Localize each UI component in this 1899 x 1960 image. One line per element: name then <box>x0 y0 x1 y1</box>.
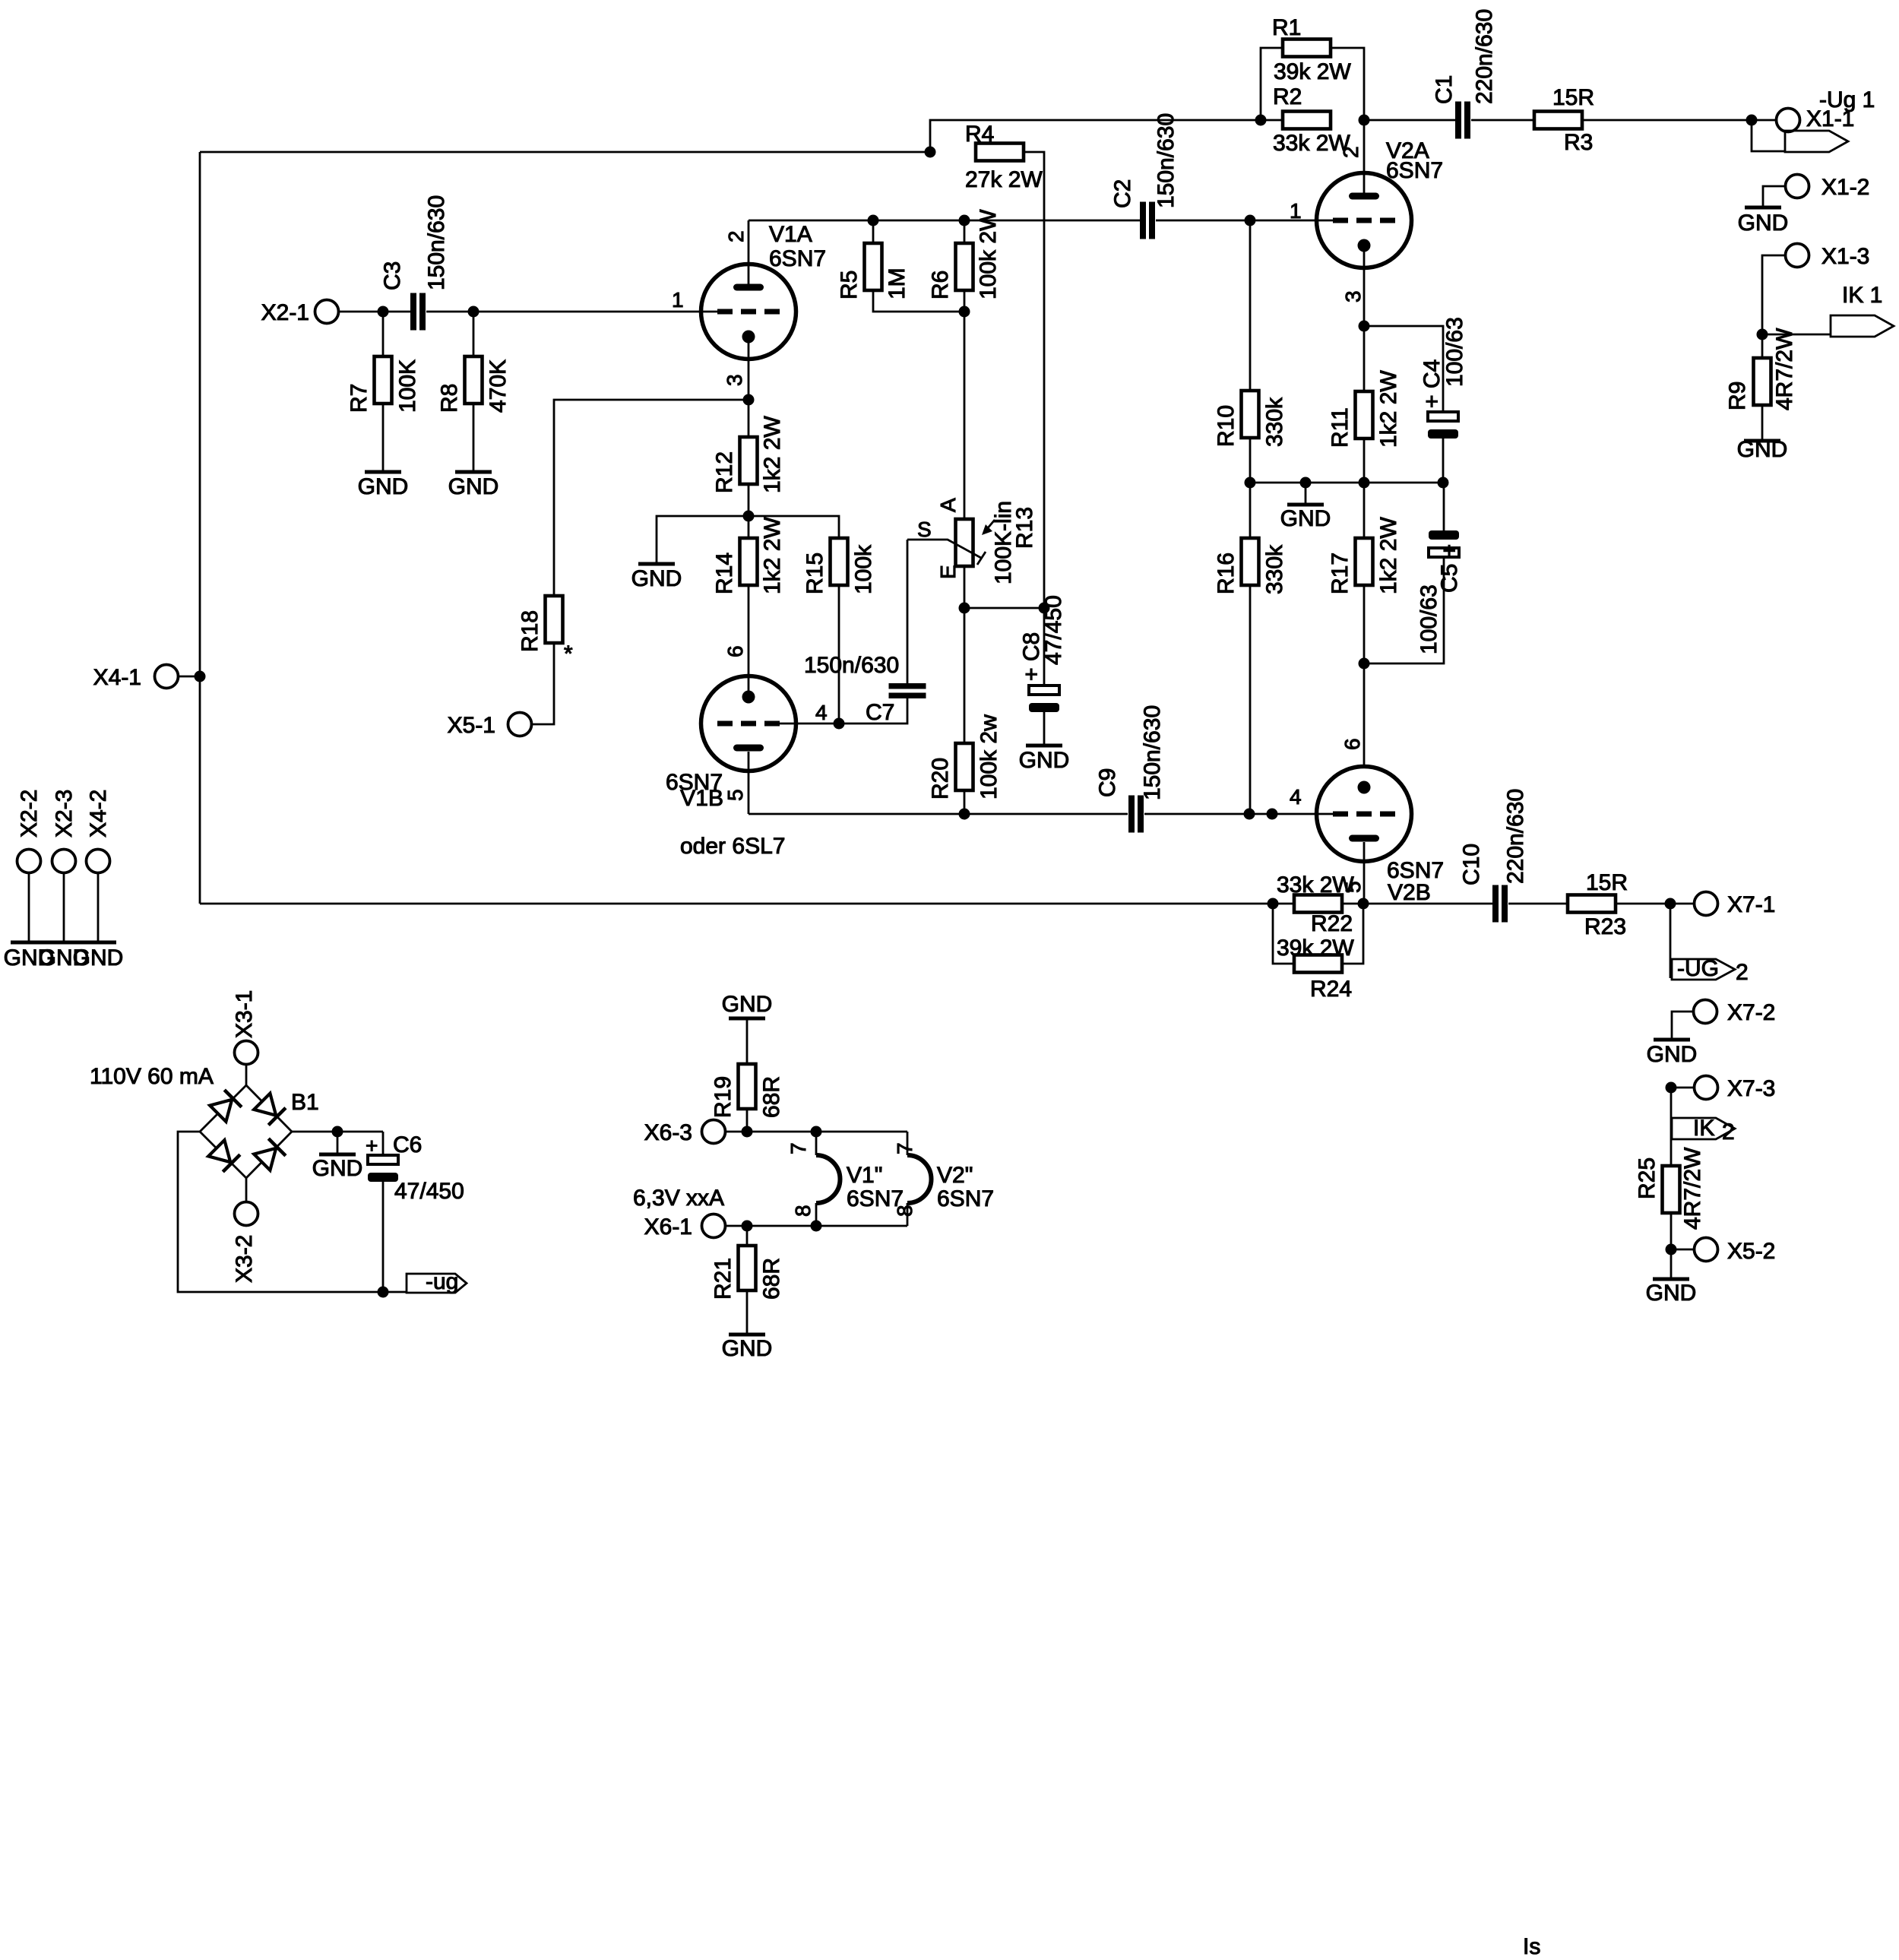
junction bus gnd <box>1300 477 1312 489</box>
svg-text:GND: GND <box>631 566 682 591</box>
wire R18 to X5-1 <box>532 643 554 724</box>
svg-text:GND: GND <box>448 474 499 499</box>
svg-text:V1A: V1A <box>769 222 812 247</box>
wire C2 to V2A grid <box>1156 220 1333 222</box>
svg-text:100k: 100k <box>851 544 876 594</box>
terminal X5-2 <box>1695 1238 1718 1262</box>
junction V1 pin8 <box>811 1221 822 1232</box>
wire V2B pin6 <box>1363 663 1366 766</box>
svg-text:220n/630: 220n/630 <box>1503 789 1528 884</box>
svg-text:GND: GND <box>1738 211 1789 236</box>
wire C4 bottom <box>1442 439 1445 483</box>
connector IK 1 <box>1831 315 1894 337</box>
svg-text:1: 1 <box>1290 199 1302 223</box>
svg-text:6SN7: 6SN7 <box>1386 158 1443 183</box>
junction R6 top <box>959 215 970 226</box>
bridge B1 diamond <box>200 1085 292 1178</box>
svg-text:R7: R7 <box>347 384 372 413</box>
junction V2A anode node <box>1359 115 1370 126</box>
svg-text:15R: 15R <box>1586 870 1628 895</box>
heater arc V1 <box>816 1155 840 1203</box>
tube V1B <box>701 676 796 771</box>
svg-text:R12: R12 <box>712 451 737 493</box>
junction R9 node <box>1757 329 1768 340</box>
wire R14 bottom <box>748 585 750 697</box>
svg-text:15R: 15R <box>1552 85 1594 110</box>
svg-text:150n/630: 150n/630 <box>424 195 449 290</box>
resistor R8 <box>465 356 483 404</box>
svg-text:R15: R15 <box>802 553 828 594</box>
junction V2A pin3 <box>1359 321 1370 332</box>
svg-text:150n/630: 150n/630 <box>1154 113 1179 208</box>
svg-text:GND: GND <box>722 992 773 1017</box>
wire V2B pin5 <box>1363 842 1366 904</box>
svg-text:C5 +: C5 + <box>1437 544 1462 593</box>
svg-text:-Ug 1: -Ug 1 <box>1819 87 1875 112</box>
svg-text:*: * <box>564 641 573 667</box>
junction bus C4 <box>1438 477 1449 489</box>
wire C9 to V2B grid <box>1144 813 1333 815</box>
wire X3-1 stub <box>245 1064 248 1085</box>
svg-text:X7-2: X7-2 <box>1727 1000 1775 1025</box>
svg-text:R16: R16 <box>1214 553 1239 594</box>
wire R10 bottom <box>1249 438 1252 483</box>
wire pot A <box>964 312 966 519</box>
svg-text:R1: R1 <box>1272 15 1301 40</box>
terminal X3-2 <box>235 1202 258 1226</box>
terminal X7-1 <box>1695 892 1718 916</box>
ground R12 node <box>638 562 675 566</box>
svg-text:330k: 330k <box>1262 397 1287 447</box>
svg-text:-ug: -ug <box>426 1269 458 1294</box>
svg-text:S: S <box>917 518 932 541</box>
svg-text:X3-1: X3-1 <box>232 990 257 1038</box>
junction C8 node <box>1039 603 1050 614</box>
wire V1A pin2 row <box>749 220 1140 222</box>
wire bottom output bus <box>200 903 1273 905</box>
wire pin3 to C4 <box>1364 326 1443 412</box>
wire bridge left loop <box>178 1132 407 1292</box>
ground X7-2 <box>1654 1038 1690 1042</box>
wire R2 to C1 <box>1364 119 1458 122</box>
svg-text:7: 7 <box>787 1142 810 1154</box>
wire R7 top <box>382 312 385 356</box>
wire V1B pin5 <box>748 752 750 814</box>
svg-text:GND: GND <box>312 1156 363 1181</box>
ground bar X2-2/X2-3/X4-2 <box>11 941 116 945</box>
svg-text:R13: R13 <box>1012 507 1037 549</box>
terminal X4-2 <box>87 850 110 873</box>
svg-text:R20: R20 <box>928 758 953 800</box>
svg-text:5: 5 <box>723 789 747 801</box>
wire X3-2 stub <box>245 1178 248 1202</box>
svg-text:47/450: 47/450 <box>394 1179 464 1204</box>
capacitor C6 <box>368 1155 398 1164</box>
svg-text:1k2 2W: 1k2 2W <box>760 416 785 493</box>
svg-text:4: 4 <box>1290 785 1302 809</box>
svg-text:7: 7 <box>893 1142 916 1154</box>
svg-text:2: 2 <box>724 230 748 242</box>
diode B1 bottom-left <box>208 1140 230 1162</box>
terminal X1-1 <box>1777 109 1800 132</box>
junction R12/R14 <box>743 511 755 522</box>
wire X7-3 <box>1671 1087 1694 1089</box>
wire R16 top <box>1249 483 1252 538</box>
svg-text:R3: R3 <box>1564 130 1593 155</box>
svg-text:C3: C3 <box>380 261 405 290</box>
svg-text:110V 60 mA: 110V 60 mA <box>90 1064 214 1089</box>
svg-text:X1-3: X1-3 <box>1821 244 1869 269</box>
svg-text:4R7/2W: 4R7/2W <box>1772 328 1797 410</box>
svg-text:X6-1: X6-1 <box>644 1214 692 1240</box>
svg-text:E: E <box>936 565 960 579</box>
wire X1-2 to gnd <box>1763 186 1785 206</box>
pot arrow <box>986 520 995 530</box>
svg-text:GND: GND <box>1646 1281 1697 1306</box>
wire R24 left loop <box>1273 904 1294 964</box>
connector -ug <box>407 1274 467 1293</box>
ground C8 <box>1026 744 1062 748</box>
wire C10 to R23 <box>1508 903 1568 905</box>
wire R19 bottom <box>746 1109 749 1132</box>
resistor R10 <box>1242 391 1259 438</box>
svg-text:39k 2W: 39k 2W <box>1274 59 1351 84</box>
svg-text:4: 4 <box>815 701 828 724</box>
wire X1-3 down <box>1762 255 1785 334</box>
svg-text:R2: R2 <box>1273 84 1302 109</box>
capacitor C7 <box>889 683 926 689</box>
capacitor C2 <box>1140 202 1146 239</box>
svg-text:1k2 2W: 1k2 2W <box>760 517 785 594</box>
junction R21/X6-1 <box>742 1221 753 1232</box>
wire R22 right stub <box>1342 903 1363 905</box>
svg-text:GND: GND <box>722 1336 773 1361</box>
ground R8 <box>455 470 492 474</box>
capacitor C4 <box>1428 412 1458 421</box>
svg-text:B1: B1 <box>291 1090 319 1115</box>
svg-text:X4-1: X4-1 <box>93 665 141 690</box>
svg-text:2: 2 <box>1339 146 1363 158</box>
junction R10 top <box>1245 215 1256 226</box>
wire R6 stub <box>964 220 966 243</box>
junction V2B pin6 <box>1359 658 1370 670</box>
svg-text:R25: R25 <box>1635 1157 1660 1199</box>
tube V2A <box>1317 173 1412 268</box>
resistor R25 <box>1663 1166 1680 1213</box>
wire X2-3 stem <box>63 873 65 942</box>
svg-text:100/63: 100/63 <box>1442 317 1467 387</box>
wire V1B pin4 <box>780 723 839 725</box>
heater V2 pin7 <box>907 1132 909 1155</box>
svg-text:4R7/2W: 4R7/2W <box>1680 1147 1705 1230</box>
resistor R20 <box>956 743 973 790</box>
wire R15 bottom <box>838 585 840 724</box>
junction R4 node <box>925 147 936 158</box>
junction -UG2 node <box>1665 898 1676 910</box>
wire C1 to R3 <box>1471 119 1534 122</box>
svg-text:X2-2: X2-2 <box>17 790 42 838</box>
junction -Ug1 node <box>1746 115 1758 126</box>
svg-text:R4: R4 <box>965 122 994 147</box>
svg-text:C9: C9 <box>1095 768 1120 797</box>
wire mid gnd bus <box>1250 482 1443 484</box>
ground X1-2 <box>1745 206 1781 210</box>
wire R12 bottom <box>748 484 750 538</box>
svg-text:X1-2: X1-2 <box>1821 175 1869 200</box>
wire left frame <box>199 152 201 904</box>
svg-text:330k: 330k <box>1262 544 1287 594</box>
wire R17 top <box>1363 483 1366 538</box>
svg-text:X5-2: X5-2 <box>1727 1239 1775 1264</box>
svg-text:A: A <box>936 498 960 512</box>
svg-text:6,3V xxA: 6,3V xxA <box>633 1186 724 1211</box>
wire heater bottom <box>726 1225 907 1227</box>
wire pot node <box>964 607 1044 610</box>
svg-text:R10: R10 <box>1214 405 1239 447</box>
wire R20 top <box>964 608 966 743</box>
svg-text:V2B: V2B <box>1388 880 1431 905</box>
wire B+ bus <box>200 151 930 154</box>
wire R3 to X1-1 <box>1582 119 1777 122</box>
heater V2 pin8 <box>907 1203 909 1226</box>
svg-text:V1B: V1B <box>680 786 723 811</box>
wire to -Ug1 arrow <box>1752 120 1785 151</box>
svg-text:C6: C6 <box>393 1132 422 1157</box>
capacitor C1 <box>1455 102 1461 139</box>
resistor R17 <box>1356 538 1373 585</box>
resistor R3 <box>1534 112 1582 129</box>
wire X7-2 gnd <box>1672 1012 1693 1038</box>
resistor R24 <box>1294 955 1342 973</box>
svg-text:150n/630: 150n/630 <box>1140 705 1165 800</box>
svg-text:100k 2W: 100k 2W <box>976 209 1001 299</box>
diode B1 top-right <box>254 1094 276 1116</box>
capacitor C8 <box>1029 686 1059 695</box>
junction C7/pin4 <box>834 718 845 730</box>
wire R23 to X7-1 <box>1616 903 1694 905</box>
svg-text:GND: GND <box>73 945 124 971</box>
wire heater top <box>726 1131 907 1133</box>
wire R1 right <box>1331 48 1364 120</box>
svg-text:R22: R22 <box>1311 911 1353 936</box>
resistor R9 <box>1754 358 1771 405</box>
capacitor C3 <box>410 293 416 331</box>
svg-text:X7-1: X7-1 <box>1727 892 1775 917</box>
wire R10 top stub <box>1249 220 1252 391</box>
tube V2B <box>1317 767 1412 862</box>
svg-text:X2-3: X2-3 <box>52 790 77 838</box>
wire C8 top <box>1043 608 1046 686</box>
wire to C10 <box>1363 903 1492 905</box>
resistor R6 <box>956 243 973 290</box>
wire bridge right <box>292 1131 383 1133</box>
svg-text:470K: 470K <box>486 359 511 413</box>
ground bridge <box>337 1132 339 1153</box>
junction C6 plus <box>332 1126 343 1138</box>
terminal X7-3 <box>1695 1076 1718 1100</box>
svg-text:C10: C10 <box>1459 844 1484 885</box>
wire C5 top <box>1443 483 1445 530</box>
junction bus R11 <box>1359 477 1370 489</box>
svg-text:R23: R23 <box>1584 914 1626 939</box>
wire pot E <box>964 566 966 608</box>
terminal X6-1 <box>702 1214 726 1238</box>
wire R11 bottom <box>1363 439 1366 483</box>
svg-text:+: + <box>366 1134 378 1157</box>
capacitor C9 <box>1128 796 1135 833</box>
wire R24 right loop <box>1342 904 1363 964</box>
svg-text:220n/630: 220n/630 <box>1472 9 1497 104</box>
resistor R14 <box>740 538 758 585</box>
svg-text:6: 6 <box>723 645 747 657</box>
svg-text:6SN7: 6SN7 <box>769 246 826 271</box>
wire R6 bottom <box>964 290 966 312</box>
wire V1A pin2 up <box>748 220 750 284</box>
svg-text:27k 2W: 27k 2W <box>965 167 1043 192</box>
svg-text:8: 8 <box>791 1205 815 1217</box>
wire R8 top <box>473 312 475 356</box>
svg-text:100k 2w: 100k 2w <box>976 714 1002 800</box>
wire C8 bottom <box>1043 712 1046 744</box>
resistor R11 <box>1356 391 1373 439</box>
svg-text:1M: 1M <box>885 268 910 299</box>
junction V1 pin7 <box>811 1126 822 1138</box>
tube V1A <box>701 264 796 359</box>
terminal X1-2 <box>1786 175 1809 198</box>
resistor R2 <box>1283 112 1331 129</box>
wire to -UG2 <box>1670 904 1672 978</box>
resistor R23 <box>1568 895 1616 913</box>
terminal X2-3 <box>52 850 76 873</box>
wire R25 bottom <box>1670 1213 1673 1249</box>
junction bus R10 <box>1245 477 1256 489</box>
svg-text:R21: R21 <box>711 1258 736 1300</box>
junction R19/X6-3 <box>742 1126 753 1138</box>
svg-text:1k2 2W: 1k2 2W <box>1376 370 1401 448</box>
terminal X2-2 <box>17 850 41 873</box>
wire R4 right down <box>1024 152 1044 608</box>
svg-text:GND: GND <box>1647 1042 1698 1067</box>
svg-text:IK: IK <box>1693 1116 1714 1141</box>
svg-text:1: 1 <box>672 288 684 312</box>
wire R1 left <box>1261 48 1283 120</box>
svg-text:68R: 68R <box>759 1076 784 1118</box>
wire X2-2 stem <box>28 873 30 942</box>
svg-text:100K: 100K <box>395 359 420 413</box>
terminal X5-1 <box>508 713 532 736</box>
svg-text:C7: C7 <box>866 700 894 725</box>
wire R7 bottom <box>382 404 385 470</box>
wire R9 top <box>1761 334 1764 358</box>
svg-text:8: 8 <box>893 1205 916 1217</box>
wire to X5-2 <box>1671 1249 1694 1251</box>
junction R20 bottom <box>959 809 970 820</box>
svg-text:X5-1: X5-1 <box>448 713 495 738</box>
diode B1 bottom-right <box>254 1148 276 1170</box>
resistor R5 <box>865 243 882 290</box>
ground R7 <box>365 470 401 474</box>
wire V2A pin3 <box>1363 252 1366 391</box>
ground mid bus <box>1305 483 1307 503</box>
svg-text:150n/630: 150n/630 <box>804 653 899 678</box>
terminal X7-2 <box>1694 1000 1717 1024</box>
wire C5 to pin6 <box>1364 557 1444 663</box>
wire R5 stub <box>872 220 875 243</box>
terminal X4-1 <box>155 665 179 689</box>
junction R8 top <box>468 306 479 318</box>
ground X5-2 <box>1670 1249 1673 1278</box>
heater V1 pin8 <box>815 1203 818 1226</box>
resistor R18 <box>546 596 563 643</box>
svg-text:GND: GND <box>1280 506 1331 531</box>
junction R16 bottom <box>1244 809 1255 820</box>
junction X4-1 frame <box>195 671 206 682</box>
svg-text:IK 1: IK 1 <box>1842 283 1882 308</box>
pot wiper <box>907 540 981 558</box>
resistor R21 <box>739 1246 756 1290</box>
svg-text:R11: R11 <box>1328 407 1353 448</box>
resistor R4 <box>976 144 1024 161</box>
resistor R15 <box>831 538 848 585</box>
junction R5 top <box>868 215 879 226</box>
capacitor C5 <box>1429 530 1459 540</box>
svg-text:3: 3 <box>1341 290 1365 302</box>
terminal X1-3 <box>1786 244 1809 268</box>
wire R22 left stub <box>1273 903 1294 905</box>
svg-text:6: 6 <box>1340 738 1364 750</box>
junction pot E node <box>959 603 970 614</box>
svg-text:100/63: 100/63 <box>1416 584 1442 654</box>
svg-text:X4-2: X4-2 <box>86 790 111 838</box>
wire C3 to V1A <box>426 311 717 313</box>
junction R1/R2 left <box>1255 115 1267 126</box>
svg-text:R24: R24 <box>1310 977 1352 1002</box>
wire R17 bottom <box>1363 585 1366 663</box>
heater arc V2 <box>907 1155 932 1203</box>
svg-text:39k 2W: 39k 2W <box>1277 936 1354 961</box>
wire X2-1 to C3 <box>339 311 410 313</box>
wire C6 top <box>382 1132 385 1155</box>
svg-text:V1": V1" <box>847 1163 882 1188</box>
capacitor C10 <box>1492 885 1499 923</box>
heater V1 pin7 <box>815 1132 818 1155</box>
svg-text:oder 6SL7: oder 6SL7 <box>680 834 785 859</box>
connector -Ug 1 <box>1785 131 1848 152</box>
svg-text:X6-3: X6-3 <box>644 1120 692 1145</box>
ground R21 <box>746 1290 749 1333</box>
connector IK 2 <box>1672 1118 1735 1139</box>
terminal X6-3 <box>702 1120 726 1144</box>
wire X4-1 <box>179 676 200 678</box>
svg-text:R9: R9 <box>1725 382 1750 410</box>
svg-text:Is: Is <box>1523 1934 1540 1959</box>
svg-text:V2": V2" <box>937 1163 973 1188</box>
connector -UG 2 <box>1672 959 1735 980</box>
svg-text:R14: R14 <box>712 553 737 594</box>
wire to IK1 arrow <box>1762 334 1831 336</box>
svg-text:X7-3: X7-3 <box>1727 1076 1775 1101</box>
svg-text:R18: R18 <box>517 610 543 652</box>
ground R9 <box>1744 439 1780 443</box>
wire X4-2 stem <box>97 873 100 942</box>
svg-text:X2-1: X2-1 <box>261 300 309 325</box>
svg-text:+ C4: + C4 <box>1420 359 1445 408</box>
wire V1B anode row <box>749 813 1128 815</box>
svg-text:47/450: 47/450 <box>1041 595 1066 665</box>
wire to gnd R12 <box>657 516 749 562</box>
svg-text:GND: GND <box>358 474 409 499</box>
svg-text:68R: 68R <box>759 1258 784 1300</box>
